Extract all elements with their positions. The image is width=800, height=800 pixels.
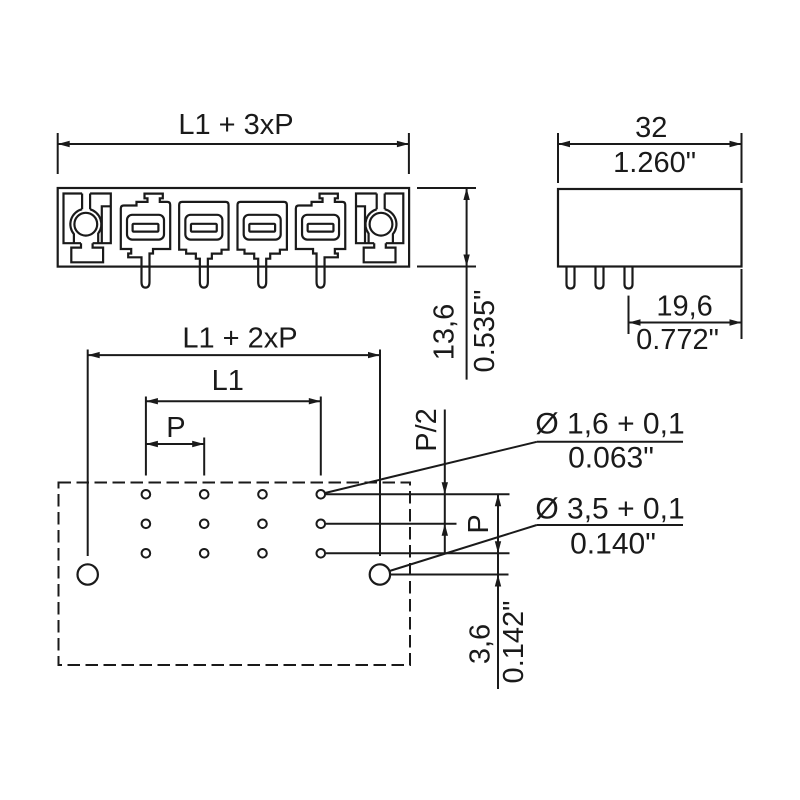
dashed board outline xyxy=(59,483,411,666)
svg-text:32: 32 xyxy=(635,112,667,144)
leader Ø 1,6 xyxy=(325,442,683,493)
left flange xyxy=(64,194,111,263)
dimension 19,6 / 0.772" xyxy=(629,269,742,339)
svg-text:Ø 1,6 + 0,1: Ø 1,6 + 0,1 xyxy=(535,408,684,441)
dimension P (horizontal) xyxy=(146,438,204,476)
svg-text:L1 + 3xP: L1 + 3xP xyxy=(178,109,293,141)
right flange mirrored xyxy=(356,194,403,263)
svg-text:P/2: P/2 xyxy=(411,408,443,452)
svg-text:13,6: 13,6 xyxy=(429,304,461,360)
mounting holes xyxy=(78,564,391,584)
svg-text:0.142": 0.142" xyxy=(498,601,530,684)
dimension P (vertical) + 3,6 xyxy=(497,494,499,689)
svg-text:L1: L1 xyxy=(212,365,244,397)
leader Ø 3,5 xyxy=(390,525,684,571)
dimension L1 + 3xP xyxy=(58,133,409,174)
svg-text:0.772": 0.772" xyxy=(636,324,719,356)
svg-text:L1 + 2xP: L1 + 2xP xyxy=(182,323,297,355)
svg-text:P: P xyxy=(463,514,495,533)
svg-text:19,6: 19,6 xyxy=(656,291,712,323)
dimension 13,6 / 0.535" xyxy=(417,188,476,380)
svg-text:3,6: 3,6 xyxy=(465,624,497,664)
row extension lines xyxy=(326,494,510,574)
svg-text:1.260": 1.260" xyxy=(613,147,696,179)
body outline xyxy=(58,188,409,267)
dimension P/2 (vertical) xyxy=(444,410,446,554)
dimension L1 + 2xP xyxy=(88,350,380,557)
svg-text:Ø 3,5 + 0,1: Ø 3,5 + 0,1 xyxy=(535,493,684,526)
svg-text:0.535": 0.535" xyxy=(469,290,501,373)
svg-text:0.063": 0.063" xyxy=(568,442,654,475)
svg-text:P: P xyxy=(166,412,185,444)
small holes xyxy=(142,490,326,558)
svg-text:0.140": 0.140" xyxy=(570,528,656,561)
dimension L1 xyxy=(146,397,321,476)
dimension 32 / 1.260" xyxy=(558,133,742,183)
cells xyxy=(121,194,170,288)
